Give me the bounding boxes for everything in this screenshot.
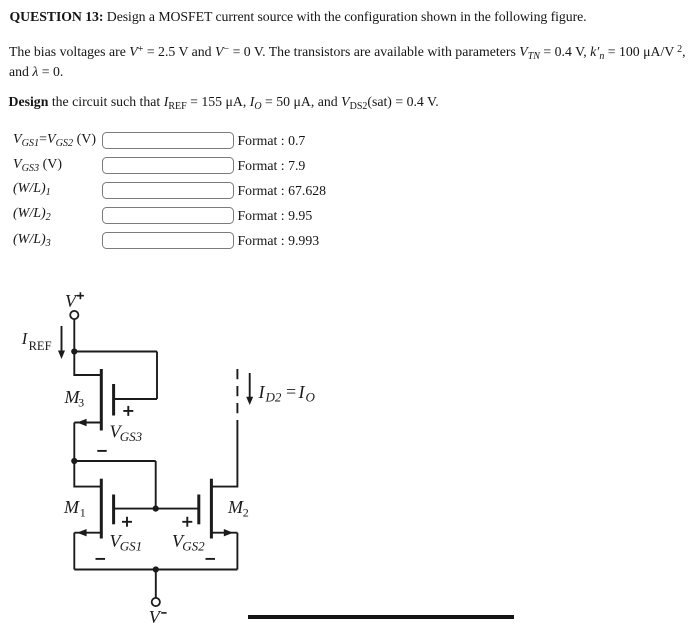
current arrow IREF [58,326,65,359]
wire right vertical down to M3 gate [156,352,158,400]
M2 source lead with arrow [211,529,237,536]
svg-text:I: I [258,382,266,402]
question text line 4 [9,92,439,112]
label VGS3 [110,422,143,445]
M1 source lead with arrow [74,529,101,536]
question text line 1 [10,7,587,27]
svg-text:2: 2 [243,506,249,520]
gate wire M1 to M2 [114,508,199,510]
M2 drain lead [211,420,237,487]
wire node A to right [74,351,157,353]
form row 4 format text [238,208,313,224]
minus sign VGS2 [206,558,216,560]
wire node B to gate column [74,460,155,462]
svg-text:V: V [65,291,78,311]
form row 1 format text [238,133,306,149]
transistor M2 channel bar [210,479,213,539]
plus sign VGS2 [182,517,192,527]
svg-text:1: 1 [80,506,86,520]
wire V+ to node A [73,319,75,351]
svg-text:GS3: GS3 [120,429,143,444]
M3 drain lead [74,352,101,376]
junction on gate wire [153,506,159,512]
label IREF [21,329,52,353]
plus sign VGS1 [122,517,132,527]
form row 2 format text [238,158,306,174]
svg-text:3: 3 [78,396,84,410]
form row 1 input box [102,132,234,149]
form row 3 label (W/L)1 [13,181,51,197]
wire M3 source down to node B [73,423,75,462]
node V+ label [65,291,78,311]
transistor M3 gate bar [112,384,115,416]
M1 source wire down [73,533,75,570]
terminal V- [152,598,160,606]
minus sign VGS3 [97,450,106,452]
svg-text:M: M [227,497,244,517]
M3 source lead with arrow [74,419,101,426]
form row 2 label VGS3 (V) [13,157,62,173]
form row 3 format text [238,183,327,199]
plus sign VGS3 [123,406,133,416]
svg-text:I: I [298,382,306,402]
label VGS1 [110,531,143,554]
svg-text:M: M [63,497,80,517]
form row 5 format text [238,233,320,249]
current arrow ID2 [246,373,253,405]
svg-text:REF: REF [29,339,52,353]
form row 5 label (W/L)3 [13,232,51,248]
terminal V+ [70,311,78,319]
svg-text:GS2: GS2 [182,539,205,554]
transistor M2 gate bar [197,495,200,525]
bottom rail [74,569,237,571]
wire to M3 gate bar [114,398,157,400]
svg-text:I: I [21,329,29,348]
question text lines 2-3 [9,42,686,81]
svg-text:O: O [306,390,316,405]
label M2 [227,497,249,520]
circuit schematic [0,280,340,623]
form row 2 input box [102,157,234,174]
M2 source wire down [236,533,238,570]
form row 4 label (W/L)2 [13,206,51,222]
transistor M3 channel bar [100,369,103,431]
label M1 [63,497,86,520]
transistor M1 channel bar [100,479,103,539]
dashed wire above M2 drain [236,369,238,415]
wire node C to V- terminal [155,570,157,598]
svg-text:D2: D2 [265,390,282,405]
junction node A (drain/gate of M3) [71,348,77,354]
form row 4 input box [102,207,234,224]
M1 drain lead [74,461,101,487]
label M3 [64,387,85,410]
minus sign VGS1 [96,558,106,560]
label VGS2 [172,531,205,554]
junction node B [71,458,77,464]
form row 5 input box [102,232,234,249]
wire gate column down [155,461,157,509]
transistor M1 gate bar [112,495,115,525]
separator bar bottom right [248,615,514,618]
svg-text:GS1: GS1 [120,539,142,554]
svg-text:=: = [286,382,296,402]
node V- label [149,607,162,623]
junction node C on bottom rail [153,566,159,572]
svg-text:V: V [149,607,162,623]
form row 3 input box [102,182,234,199]
form row 1 label VGS1=VGS2 (V) [13,132,96,148]
label ID2 = IO [258,382,316,405]
